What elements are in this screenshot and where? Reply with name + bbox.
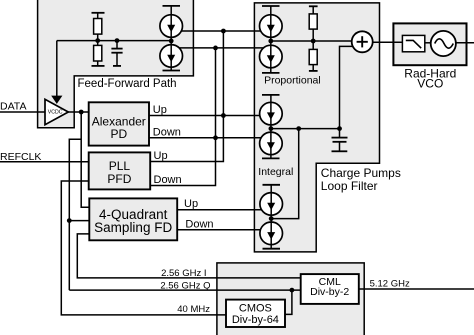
node proportional resistor junction [311,39,316,44]
svg-text:PD: PD [110,127,127,141]
current source pair U_FF feed-forward charge pump [160,6,183,71]
svg-text:Down: Down [153,126,181,138]
low-pass filter icon inside VCO box [402,35,424,51]
wire FF RC node horizontal [57,40,171,42]
node Down bus Alexander junction [213,135,218,140]
svg-text:Div-by-2: Div-by-2 [310,286,349,298]
node integral pump 2 junction [269,216,274,221]
node integral pump junction [269,126,274,131]
4-quadrant sampling FD block [89,198,177,240]
wire VCO output to right edge [425,42,431,44]
wire Down bus from FF charge pump to proportional pump [179,47,263,49]
svg-text:40 MHz: 40 MHz [177,304,210,315]
wire sampling FD Down output [177,229,260,231]
capacitor C2 loop filter integral [332,129,348,152]
wire REFCLK input [0,161,89,163]
node proportional pump junction [268,39,273,44]
node sampling FD input junction [67,218,72,223]
resistor R3 proportional top [309,6,318,41]
svg-text:Up: Up [153,104,167,116]
wire 5.12GHz from right edge to CML divider [359,288,474,290]
svg-text:PLL: PLL [109,159,131,173]
svg-text:2.56 GHz Q: 2.56 GHz Q [160,280,210,291]
PLL PFD block [89,152,151,189]
charge pumps loop filter enclosure box [254,3,379,252]
node FF RC capacitor junction [115,38,120,43]
svg-text:Up: Up [154,150,168,162]
current source pair U3 integral charge pump 2 [260,185,283,249]
svg-text:Proportional: Proportional [264,75,321,87]
wire Q branch down to CMOS divider input [285,290,292,314]
wire Alexander PD Down output [149,137,261,139]
oscillator icon inside VCO box [431,31,456,56]
wire vertical Down bus join [150,48,215,186]
rad-hard VCO box [393,23,466,65]
wire adder to VCO [373,41,403,43]
svg-text:CMOS: CMOS [239,302,272,314]
svg-text:2.56 GHz I: 2.56 GHz I [161,268,206,279]
svg-text:VCDC: VCDC [48,110,63,116]
resistor R1 feed-forward top [92,13,105,41]
svg-text:Div-by-64: Div-by-64 [232,314,279,326]
arrowhead of VCDC control wire [51,96,62,104]
wire proportional node horizontal [271,40,352,42]
wire vertical Up bus join [150,31,223,162]
svg-text:Down: Down [154,174,182,186]
wire integral pump 2 riser [271,129,299,219]
svg-text:PFD: PFD [107,172,131,186]
wire 2.56GHz Q from CML divider [69,289,300,291]
resistor R4 proportional bottom [309,41,318,71]
wire integral bus horizontal [271,128,340,130]
VCDC buffer triangle [45,99,68,124]
CMOS div-by-64 block [226,300,285,327]
wire 2.56GHz I to sampling FD input 3 [77,234,300,278]
CML div-by-2 block [301,274,359,304]
wire VCDC control from RC node down into VCDC [56,41,58,98]
node Up bus top junction [221,29,226,34]
wire data riser to sampling FD input 1 [81,112,89,207]
wire sampling FD input 2 stub [69,220,89,222]
svg-text:5.12 GHz: 5.12 GHz [370,278,410,289]
wire DATA input [0,111,45,113]
node Down bus top junction [213,46,218,51]
summing adder node [352,31,373,52]
svg-text:Up: Up [184,198,198,210]
svg-text:Sampling FD: Sampling FD [94,220,172,235]
svg-text:Loop Filter: Loop Filter [321,179,378,193]
clock divider enclosure box [217,263,364,335]
wire VCDC output to Alexander PD [68,111,88,113]
node integral capacitor junction [337,126,342,131]
svg-text:Down: Down [185,219,213,231]
wire Alexander PD Up output [149,115,260,117]
svg-text:DATA: DATA [0,100,26,112]
wire data branch jog at y139 [69,139,81,290]
resistor R2 feed-forward bottom [92,41,105,66]
feed-forward path enclosure box [38,0,194,128]
wire sampling FD Up output [177,209,261,211]
Alexander PD block [89,102,149,145]
svg-text:Feed-Forward Path: Feed-Forward Path [78,78,177,90]
wire 40MHz from CMOS divider to PLL PFD input 2 [61,181,226,315]
node VCDC output junction [79,110,84,115]
node integral riser junction [296,126,301,131]
wire Up bus from FF charge pump to proportional pump [181,30,260,32]
svg-text:VCO: VCO [417,77,443,91]
svg-text:REFCLK: REFCLK [0,151,41,163]
capacitor C1 feed-forward [111,41,122,66]
node FF charge pump junction [169,39,174,44]
node Up bus Alexander junction [221,113,226,118]
node Q to CMOS divider junction [290,288,295,293]
current source pair U2 integral charge pump [260,95,283,158]
svg-text:Charge Pumps: Charge Pumps [321,166,401,180]
current source pair U1 proportional charge pump [260,6,283,73]
svg-text:Integral: Integral [258,166,293,178]
wire integral riser to adder [340,46,353,128]
node FF RC resistor junction [95,38,100,43]
